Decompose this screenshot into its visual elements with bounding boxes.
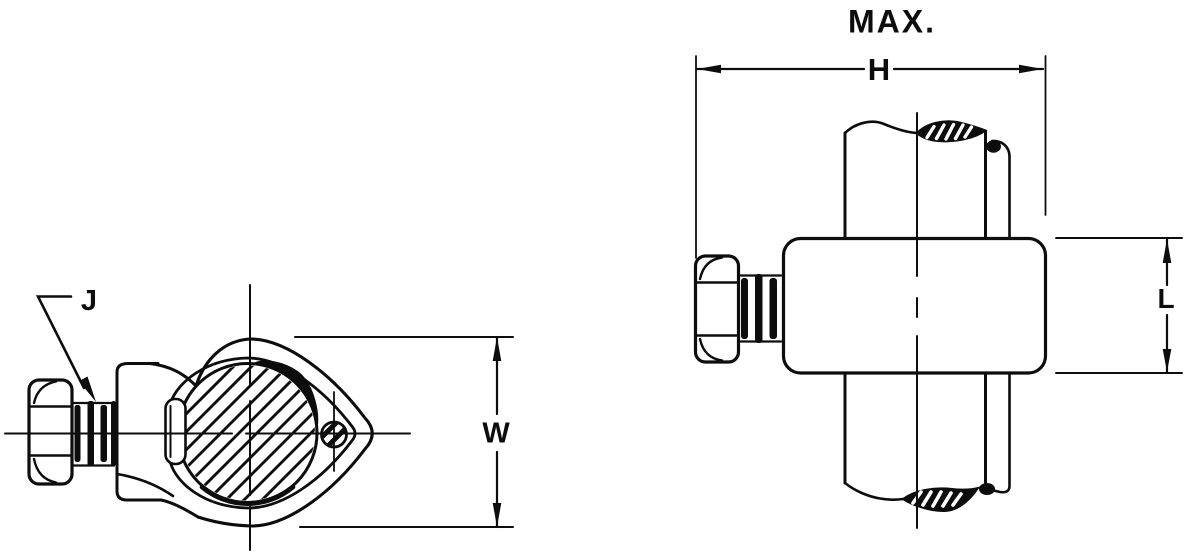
J arrowhead bbox=[79, 377, 96, 403]
L extension line bottom bbox=[1056, 372, 1182, 374]
W dimension line bbox=[496, 337, 498, 527]
top saddle notch bbox=[150, 364, 196, 387]
lens white slots bottom bbox=[913, 492, 961, 506]
threads zone edges bbox=[741, 276, 782, 342]
hex head bolt B2 bbox=[696, 256, 739, 362]
screw tip white margin bbox=[319, 419, 350, 450]
centerline horizontal (left view) bbox=[5, 433, 410, 435]
hex facet arcs bbox=[34, 382, 56, 483]
threads zone edges bbox=[74, 403, 115, 466]
bottom silhouette merge bbox=[161, 500, 198, 517]
clamp body (side view) bbox=[784, 239, 1046, 374]
wire blob bottom bbox=[979, 483, 995, 495]
H extension line left bbox=[695, 56, 697, 258]
svg-text:L: L bbox=[1157, 283, 1174, 314]
conductor bottom break lens bbox=[903, 488, 978, 511]
L extension line top bbox=[1056, 237, 1182, 239]
conductor left edge bottom bbox=[844, 373, 847, 483]
thick arc bottom of circle bbox=[202, 487, 293, 503]
svg-text:J: J bbox=[81, 285, 97, 317]
clamp cavity inner outline bbox=[171, 358, 356, 508]
centerline vertical (left view) bbox=[249, 285, 251, 550]
tap wire top bbox=[992, 141, 1010, 238]
clamp body outer (egg) bbox=[196, 339, 372, 526]
hex facet lines bbox=[697, 283, 738, 336]
screw centerline bbox=[333, 392, 335, 471]
svg-text:MAX.: MAX. bbox=[848, 4, 936, 40]
bottom internal intersection curve bbox=[117, 474, 173, 496]
J leader line bbox=[38, 297, 84, 389]
thread bars bbox=[741, 274, 777, 343]
conductor top break lens bbox=[917, 121, 986, 141]
tap wire bottom bbox=[987, 373, 1010, 492]
L dimension line bbox=[1166, 238, 1168, 373]
hex head bolt B1 bbox=[29, 380, 72, 484]
H extension line right bbox=[1045, 56, 1047, 215]
conductor right edge bottom bbox=[984, 373, 987, 483]
screw tip hatch bbox=[319, 418, 354, 458]
hex facet arcs bbox=[700, 258, 722, 361]
wire blob top bbox=[986, 140, 1001, 152]
conductor left edge top bbox=[844, 133, 847, 238]
screw tip circle bbox=[322, 422, 347, 447]
jaw seat crescent (thick arc top-right) bbox=[254, 361, 318, 427]
svg-text:W: W bbox=[482, 418, 510, 450]
W arrowheads bbox=[493, 337, 502, 527]
conductor circle bbox=[178, 364, 317, 503]
conductor right edge top bbox=[984, 131, 987, 238]
svg-text:H: H bbox=[868, 52, 890, 87]
hex facet lines bbox=[31, 407, 71, 456]
L arrowheads bbox=[1163, 239, 1172, 372]
thread bars bbox=[75, 401, 117, 466]
H dimension line bbox=[697, 68, 1043, 70]
conductor bottom break arc bbox=[845, 483, 903, 500]
conductor cross-section hatching bbox=[86, 266, 415, 552]
pad inner line bbox=[170, 406, 172, 457]
W extension line top bbox=[295, 336, 513, 338]
conductor top break arc bbox=[845, 122, 917, 133]
H arrowheads bbox=[697, 65, 1043, 74]
boss (bolt housing) bbox=[117, 364, 161, 501]
pressure pad bbox=[166, 399, 186, 464]
lens white slots top bbox=[927, 125, 972, 140]
centerline vertical (right view) bbox=[916, 113, 918, 528]
W extension line bottom bbox=[300, 526, 513, 528]
